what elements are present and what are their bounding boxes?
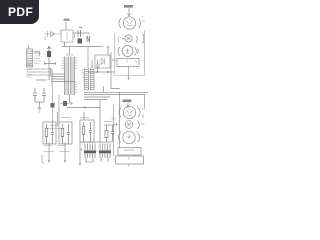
tube V1c	[118, 46, 139, 57]
wire	[57, 112, 59, 125]
terminal box TB1	[117, 59, 139, 67]
transformer T1	[61, 30, 73, 42]
capacitor C9	[111, 125, 114, 142]
diode D1	[95, 47, 110, 69]
ground	[64, 142, 66, 162]
capacitor C8	[67, 124, 70, 144]
resistor R1	[45, 124, 47, 144]
wire	[44, 62, 56, 65]
wire	[87, 47, 89, 53]
wire	[73, 32, 90, 34]
cell loop A	[43, 122, 56, 144]
bus wires right	[84, 92, 148, 99]
wire stubs	[27, 69, 52, 75]
wire	[128, 8, 131, 17]
label	[48, 126, 61, 129]
tube V1b	[118, 35, 145, 43]
capacitor C1	[78, 28, 82, 38]
IC U2	[82, 68, 95, 90]
diode D3	[78, 39, 83, 44]
resistor R4	[82, 122, 84, 142]
resistor R5	[105, 125, 108, 142]
wire	[69, 95, 71, 103]
wire	[51, 69, 53, 86]
tube V2b	[115, 121, 145, 130]
terminal box TB2	[118, 148, 141, 156]
capacitor C2	[87, 36, 90, 42]
label net2	[61, 117, 71, 119]
wire	[99, 100, 101, 144]
plug P1	[44, 31, 61, 40]
ground	[48, 142, 50, 162]
pin ticks	[50, 68, 52, 77]
node mark	[80, 148, 99, 151]
wire stub	[112, 59, 116, 61]
cell loop C	[80, 120, 94, 142]
tube V2c	[118, 131, 143, 144]
PDF badge	[0, 0, 39, 24]
wire	[65, 22, 67, 30]
relay K2	[99, 144, 111, 163]
cell loop B	[59, 122, 72, 144]
capacitor C10	[89, 122, 92, 142]
label NF	[43, 151, 70, 153]
wire tick	[74, 34, 76, 38]
relay K1	[84, 144, 96, 163]
wire rails V1	[115, 30, 145, 76]
wire	[51, 74, 53, 82]
polarized capacitor C6	[63, 101, 67, 106]
wire	[69, 47, 71, 57]
ground	[38, 108, 42, 112]
wire	[64, 42, 66, 47]
label	[44, 145, 65, 147]
wire	[127, 103, 130, 109]
tube V2 label	[123, 100, 132, 103]
wire	[111, 52, 120, 89]
wire	[88, 71, 114, 73]
wire	[58, 95, 60, 122]
wire	[144, 95, 146, 108]
tube V1a	[119, 17, 145, 30]
wire	[79, 143, 81, 165]
tube V2a	[119, 106, 145, 119]
wire	[33, 52, 40, 56]
label net1	[104, 121, 112, 123]
node mark	[112, 118, 129, 167]
capacitor C5	[96, 60, 100, 72]
electrolytic C12	[48, 46, 51, 64]
IC U1	[62, 53, 78, 95]
wire	[104, 124, 115, 126]
wire main rail	[62, 46, 103, 48]
terminal box TB3	[116, 156, 144, 164]
wire	[67, 107, 100, 109]
wire	[42, 155, 44, 164]
connector J1	[27, 46, 42, 78]
wire	[35, 102, 44, 108]
node AC label	[64, 19, 70, 21]
capacitor C4	[42, 88, 46, 102]
wire rail	[119, 92, 121, 148]
tube V1 label	[124, 5, 133, 8]
wire	[103, 86, 105, 92]
wire	[36, 64, 49, 80]
wire rail left	[113, 104, 115, 156]
capacitor C7	[51, 124, 54, 144]
diode D2	[52, 86, 54, 125]
bus wires left	[52, 74, 74, 82]
capacitor C3	[33, 88, 37, 102]
wire	[83, 112, 85, 120]
node tick	[70, 102, 74, 106]
wire	[88, 52, 92, 68]
label net3	[80, 117, 89, 119]
wire	[80, 141, 112, 143]
resistor R2	[61, 124, 63, 144]
